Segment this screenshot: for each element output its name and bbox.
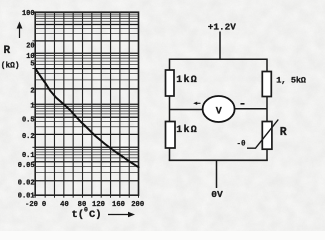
svg-text:0: 0	[42, 201, 46, 209]
thermistor diagonal stroke	[247, 120, 278, 149]
svg-text:0.5: 0.5	[22, 116, 35, 124]
bottom rail wire	[169, 159, 268, 161]
svg-text:(kΩ): (kΩ)	[1, 63, 20, 71]
svg-text:+1.2V: +1.2V	[208, 21, 237, 32]
mid wire right segment	[235, 108, 268, 110]
svg-text:0V: 0V	[211, 189, 223, 200]
top rail wire	[170, 59, 268, 71]
thermistor RT	[262, 122, 272, 150]
wire left branch lower to bottom rail	[169, 148, 171, 160]
polarity minus right of voltmeter	[241, 103, 245, 105]
graph plot box	[35, 12, 138, 195]
graph bold horizontal lines (decades and 2,5 multiples)	[35, 25, 138, 181]
resistor R1 1k top-left	[166, 70, 175, 96]
wire right branch lower to bottom rail	[266, 149, 268, 160]
wire right branch upper to thermistor	[266, 97, 268, 122]
svg-text:0.1: 0.1	[22, 152, 35, 160]
graph vertical grid lines every 20 degC	[45, 12, 129, 195]
supply feed wire	[219, 32, 221, 60]
x axis ticks below	[35, 195, 138, 198]
svg-text:C): C)	[89, 209, 102, 221]
resistor R3 1k bottom-left	[166, 122, 176, 149]
svg-text:R: R	[4, 45, 11, 57]
y axis arrow up	[17, 22, 23, 39]
svg-text:-20: -20	[25, 201, 38, 209]
svg-text:-θ: -θ	[237, 141, 247, 149]
svg-text:1, 5kΩ: 1, 5kΩ	[276, 76, 306, 86]
voltmeter U1	[203, 96, 235, 122]
svg-text:t(: t(	[72, 209, 85, 221]
svg-text:0: 0	[84, 207, 88, 214]
polarity arrow left of voltmeter	[193, 102, 200, 105]
thermistor characteristic curve	[35, 69, 138, 168]
ground feed wire 0V	[216, 160, 218, 188]
svg-text:40: 40	[60, 201, 69, 209]
svg-text:0.05: 0.05	[18, 162, 35, 170]
svg-text:V: V	[216, 107, 222, 118]
svg-text:R: R	[280, 126, 287, 139]
svg-text:0.02: 0.02	[18, 179, 35, 187]
y axis ticks left of labeled lines	[32, 12, 35, 195]
y axis labels	[18, 10, 35, 201]
svg-text:20: 20	[26, 42, 34, 50]
svg-text:120: 120	[92, 201, 105, 209]
svg-text:1: 1	[30, 102, 34, 110]
mid wire left segment	[170, 109, 203, 111]
graph log grid thin horizontal lines	[35, 14, 138, 172]
wire left branch upper to mid node	[169, 96, 171, 122]
svg-text:200: 200	[131, 201, 144, 209]
x axis labels	[25, 201, 144, 209]
svg-text:2: 2	[30, 88, 34, 96]
svg-text:0.01: 0.01	[18, 192, 35, 200]
svg-text:1kΩ: 1kΩ	[176, 124, 198, 136]
x axis arrow right	[108, 212, 135, 217]
svg-text:5: 5	[30, 60, 34, 68]
svg-text:0.2: 0.2	[22, 133, 35, 141]
svg-text:160: 160	[112, 201, 125, 209]
svg-text:1kΩ: 1kΩ	[176, 74, 198, 86]
svg-text:100: 100	[22, 10, 35, 18]
resistor R2 1.5k top-right	[262, 72, 271, 97]
